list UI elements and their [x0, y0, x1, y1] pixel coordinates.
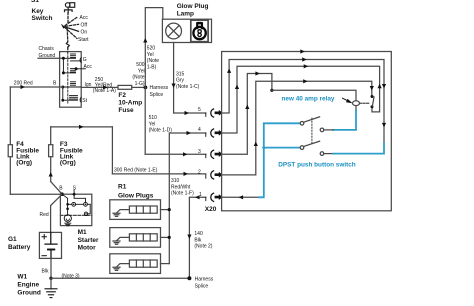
svg-text:Ground: Ground	[17, 290, 40, 297]
svg-text:Chasis: Chasis	[39, 46, 55, 52]
Start position label	[78, 37, 89, 43]
arrow down on 315 Gry	[172, 84, 176, 89]
pin 4 socket	[206, 129, 223, 137]
svg-text:(Note 3): (Note 3)	[62, 274, 80, 280]
svg-text:Splice: Splice	[195, 283, 209, 289]
glow plug lamp label	[177, 3, 209, 17]
svg-text:Glow Plug: Glow Plug	[177, 3, 209, 10]
node B terminal	[61, 86, 64, 89]
svg-text:Glow Plugs: Glow Plugs	[118, 193, 154, 200]
key symbol	[65, 3, 75, 13]
wire pin 3 inner run	[222, 74, 272, 155]
key switch internal dashed shaft	[67, 52, 69, 103]
arrow down pin5 right leg	[382, 84, 386, 89]
arrow on 250 wire	[103, 85, 108, 89]
DPST switch pole 1	[300, 122, 304, 126]
svg-text:310: 310	[171, 178, 180, 184]
svg-text:4: 4	[198, 127, 201, 133]
wire 200 Red vertical (left side)	[9, 87, 11, 194]
arrow right pin4 top	[304, 64, 309, 68]
svg-text:500: 500	[136, 62, 145, 68]
svg-text:(Note: (Note	[147, 58, 159, 64]
label B terminal	[59, 186, 63, 192]
svg-text:DPST push button switch: DPST push button switch	[278, 162, 355, 169]
label 500 Yel (Note 1-G)	[132, 62, 145, 87]
arrow left pin1 inner	[239, 195, 244, 199]
F3 label	[60, 141, 83, 166]
arrow up on F3 branch	[49, 172, 53, 177]
label X20	[205, 206, 217, 213]
starter motor M1 box	[60, 194, 91, 225]
svg-text:(Note 2): (Note 2)	[194, 244, 212, 250]
svg-text:St: St	[82, 98, 87, 104]
R1 glow plugs label	[118, 184, 154, 200]
glow plug 2 element	[113, 234, 157, 244]
label 300 Red	[114, 167, 158, 173]
node battery ground junction	[49, 277, 52, 280]
node harness splice (ground)	[187, 276, 191, 280]
svg-text:510: 510	[149, 115, 158, 121]
glow plug 1 box	[110, 200, 161, 220]
svg-text:(Org): (Org)	[60, 160, 76, 167]
wire pin 2 inner run	[222, 81, 372, 175]
DPST label	[278, 162, 355, 169]
svg-text:(Org): (Org)	[16, 160, 32, 167]
glow plug 3 tap	[161, 263, 170, 265]
svg-text:M1: M1	[78, 229, 87, 236]
starter internals: B drop	[62, 194, 72, 215]
svg-text:On: On	[81, 30, 88, 36]
label 310 Red/Wht (Note 1-F)	[171, 178, 194, 197]
pin 5 socket	[206, 109, 223, 117]
glow plug 3 element	[113, 260, 157, 270]
svg-text:140: 140	[194, 231, 203, 237]
svg-text:new 40 amp relay: new 40 amp relay	[282, 96, 335, 103]
F2 label	[118, 92, 142, 114]
svg-text:Motor: Motor	[78, 245, 97, 252]
svg-text:Splice: Splice	[150, 92, 164, 98]
arrow up pin3 riser	[245, 105, 249, 110]
wire coil to blue node	[333, 111, 356, 130]
bulb icon	[193, 22, 205, 39]
arrow on 300 Red	[184, 172, 189, 176]
Ign contact comb	[71, 82, 76, 85]
motor armature circle	[64, 215, 71, 222]
svg-text:Blk: Blk	[194, 237, 201, 243]
B bus inside switch	[62, 87, 64, 100]
M1 label	[78, 229, 99, 252]
label 140 Blk (Note 2)	[194, 231, 212, 250]
arrow on F3 top run	[79, 125, 84, 129]
label 250 Yel/Red	[93, 77, 116, 94]
key shaft dashed line	[67, 13, 69, 23]
Off position label	[81, 22, 88, 28]
ground bus inside switch	[62, 58, 64, 73]
Ign terminal wire through box	[63, 86, 81, 88]
F4 label	[16, 141, 39, 166]
svg-text:Blk: Blk	[42, 268, 49, 274]
battery negative wire	[50, 258, 52, 278]
W1 label	[17, 274, 40, 297]
node B starter junction	[51, 182, 62, 195]
wire 300 Red down leg	[111, 127, 113, 174]
St contact comb	[70, 96, 78, 99]
wire pin 5 inner run	[222, 60, 384, 144]
new 40 amp relay label	[282, 96, 335, 103]
svg-text:Acc: Acc	[84, 64, 93, 70]
G contact comb	[71, 54, 76, 57]
glow plug 2 box	[110, 228, 161, 248]
battery minus sign	[42, 255, 46, 257]
G1 label	[8, 236, 31, 251]
wire 200 Red horizontal	[10, 86, 63, 88]
wire 510 Yel to pin 3	[145, 153, 206, 155]
Acc terminal line	[75, 67, 78, 70]
Acc position label	[80, 15, 89, 21]
label 510 Yel (Note 1-D)	[149, 115, 173, 134]
pin 2 socket	[206, 171, 223, 179]
svg-text:S1: S1	[31, 0, 39, 4]
wire battery feed bottom	[10, 193, 62, 195]
blue wire pole2 right to pin5 riser	[333, 143, 384, 153]
blue bus DPST left	[259, 123, 300, 197]
node harness splice (fuse)	[144, 86, 148, 90]
arrow right pin5 top	[302, 57, 307, 61]
arrow to pin 3	[183, 152, 188, 156]
pin number 5	[198, 107, 201, 113]
arrow right pin2 top	[303, 79, 308, 83]
svg-text:520: 520	[147, 46, 156, 52]
svg-text:Switch: Switch	[32, 15, 53, 22]
battery plus sign	[42, 235, 46, 239]
wire relay coil feed	[272, 90, 356, 101]
fusible link F4	[8, 145, 12, 157]
svg-text:300 Red (Note 1-E): 300 Red (Note 1-E)	[114, 167, 158, 173]
svg-text:Red/Wht: Red/Wht	[171, 184, 191, 190]
harness splice label 2	[195, 276, 214, 289]
connector pins X20	[206, 109, 223, 201]
svg-text:Acc: Acc	[80, 15, 89, 21]
svg-text:G1: G1	[8, 236, 17, 243]
pin number 3	[198, 149, 201, 155]
ground bus wire	[51, 277, 189, 279]
wire fuse to splice	[132, 86, 146, 88]
arrow on 200 Red	[21, 85, 26, 89]
relay contact blade	[372, 97, 374, 106]
svg-text:1-B): 1-B)	[147, 64, 157, 70]
S terminal tick	[73, 190, 75, 194]
label 520 Yel (Note 1-B)	[147, 46, 159, 71]
chassis ground label	[39, 46, 56, 59]
svg-text:10-Amp: 10-Amp	[118, 100, 142, 107]
node relay feed junction	[270, 89, 273, 92]
G terminal line and hook	[71, 60, 82, 62]
arrow down pin2 right leg	[370, 86, 374, 91]
svg-text:Engine: Engine	[17, 282, 39, 289]
svg-text:Key: Key	[32, 8, 44, 15]
svg-text:X20: X20	[205, 206, 217, 213]
svg-text:(Note 1-F): (Note 1-F)	[171, 191, 194, 197]
selector line to On (solid)	[65, 27, 79, 32]
relay actuation dashed link	[360, 102, 370, 104]
svg-text:(Note 1-C): (Note 1-C)	[176, 84, 200, 90]
svg-text:G: G	[83, 57, 87, 63]
label 315 Gry (Note 1-C)	[176, 71, 200, 90]
arrow to pin 5	[185, 111, 190, 115]
key position selector pivot arrow	[61, 24, 66, 29]
wire pin 4 inner run	[222, 66, 380, 133]
wire 520 Yel up to lamp	[145, 8, 163, 88]
label S terminal	[73, 186, 77, 192]
arrow up pin4 right leg	[378, 84, 382, 89]
svg-text:Yel: Yel	[149, 121, 156, 127]
wire F3 top run	[51, 126, 113, 128]
wire ignition 250 Yel/Red to fuse	[81, 86, 118, 88]
arrow down on pin1 riser	[187, 235, 191, 240]
svg-text:200 Red: 200 Red	[14, 81, 33, 87]
engine ground symbol W1	[50, 278, 52, 289]
glow plug lamp box	[162, 19, 211, 42]
svg-text:Gry: Gry	[176, 78, 185, 84]
wire 510 Yel down from splice	[144, 87, 146, 154]
wire 315 Gry lamp down	[173, 43, 175, 114]
label Red	[40, 212, 49, 218]
lamp bulb icon box	[191, 20, 208, 42]
svg-text:Yel: Yel	[138, 68, 145, 74]
starter S feed run	[74, 194, 85, 202]
node G wiper	[62, 57, 65, 60]
svg-text:Fuse: Fuse	[118, 107, 134, 114]
svg-text:1-G): 1-G)	[135, 81, 145, 87]
label arrow to relay	[343, 98, 349, 101]
pin 3 socket	[206, 150, 223, 158]
arrow on boundary top	[300, 49, 305, 53]
svg-text:F2: F2	[118, 92, 126, 99]
wire chassis ground to G contact	[38, 57, 63, 59]
label note 3	[62, 274, 80, 280]
battery positive cable	[51, 194, 63, 232]
glow plug 1 tap	[161, 209, 170, 211]
wire pin 1 riser to harness splice	[189, 197, 205, 278]
battery cell plates	[45, 232, 57, 244]
key switch S1 label	[31, 0, 52, 22]
svg-text:Harness: Harness	[195, 276, 214, 282]
svg-text:Harness: Harness	[150, 85, 169, 91]
wire pin 1 inner run	[222, 196, 259, 198]
Acc contact comb	[71, 69, 76, 72]
On position label	[81, 30, 88, 36]
svg-text:Yel: Yel	[147, 52, 154, 58]
svg-text:R1: R1	[118, 184, 127, 191]
arrow up pin5 riser	[227, 68, 231, 73]
pin number 2	[198, 170, 201, 176]
svg-text:Start: Start	[78, 37, 89, 43]
svg-text:315: 315	[176, 71, 185, 77]
wire pin 4 to glow plug bus	[169, 133, 206, 264]
pin number 4	[198, 127, 201, 133]
arrow up pin4 riser	[235, 85, 239, 90]
label Blk	[42, 268, 49, 274]
contact output leg	[88, 204, 91, 214]
arrow to pin 4	[187, 131, 192, 135]
relay contact terminals	[371, 95, 374, 98]
fuse F2	[118, 85, 132, 89]
svg-text:Red: Red	[40, 212, 49, 218]
svg-text:Off: Off	[81, 22, 88, 28]
key switch box	[60, 52, 82, 108]
blue branch to lower pole	[264, 147, 300, 149]
svg-text:Starter: Starter	[78, 237, 99, 244]
svg-text:W1: W1	[17, 274, 27, 281]
relay coil K1	[353, 101, 360, 106]
node blue branch junction	[262, 146, 265, 149]
solenoid contact circles	[72, 202, 76, 206]
svg-text:(Note 1-A): (Note 1-A)	[93, 88, 116, 94]
St wiper	[63, 99, 78, 101]
node Acc wiper	[62, 71, 65, 74]
DPST mechanical link dotted	[311, 118, 313, 144]
selector line to Off (dashed)	[66, 24, 79, 26]
fusible link F3 branch vertical	[50, 127, 52, 182]
starter solenoid frame dashed	[60, 214, 91, 216]
pin number 1	[199, 192, 202, 198]
svg-text:Lamp: Lamp	[177, 10, 194, 17]
arrow up on 520 Yel	[143, 38, 147, 43]
glow plug 1 element	[113, 206, 157, 216]
harness splice label	[150, 85, 169, 98]
pin 1 socket	[206, 193, 223, 201]
svg-text:1: 1	[199, 192, 202, 198]
glow plug 3 box	[110, 254, 161, 274]
svg-text:5: 5	[198, 107, 201, 113]
label 200 Red	[14, 81, 33, 87]
harness boundary rectangle	[222, 52, 392, 211]
wire 300 Red to pin 2	[112, 173, 205, 175]
label B	[53, 81, 57, 87]
fusible link F3	[49, 145, 53, 157]
battery G1 box	[39, 232, 61, 258]
key shaft lower dashed with break	[66, 29, 69, 42]
wire 315 Gry to pin 5	[174, 112, 206, 114]
DPST switch pole 2	[300, 146, 304, 150]
glow plug 2 tap	[161, 236, 170, 238]
svg-text:2: 2	[198, 170, 201, 176]
selector line to Acc (dashed)	[65, 17, 78, 26]
lamp circle symbol	[166, 23, 182, 39]
arrow right pin3 top	[255, 71, 260, 75]
svg-text:3: 3	[198, 149, 201, 155]
arrow left on pin1 wire	[195, 195, 200, 199]
selector line to Start (dashed)	[65, 27, 77, 38]
arrow up pin2 riser	[254, 142, 258, 147]
St terminal hook	[80, 97, 81, 102]
svg-text:(Note: (Note	[132, 75, 144, 81]
svg-text:Battery: Battery	[8, 244, 31, 251]
motor ground	[67, 222, 69, 223]
